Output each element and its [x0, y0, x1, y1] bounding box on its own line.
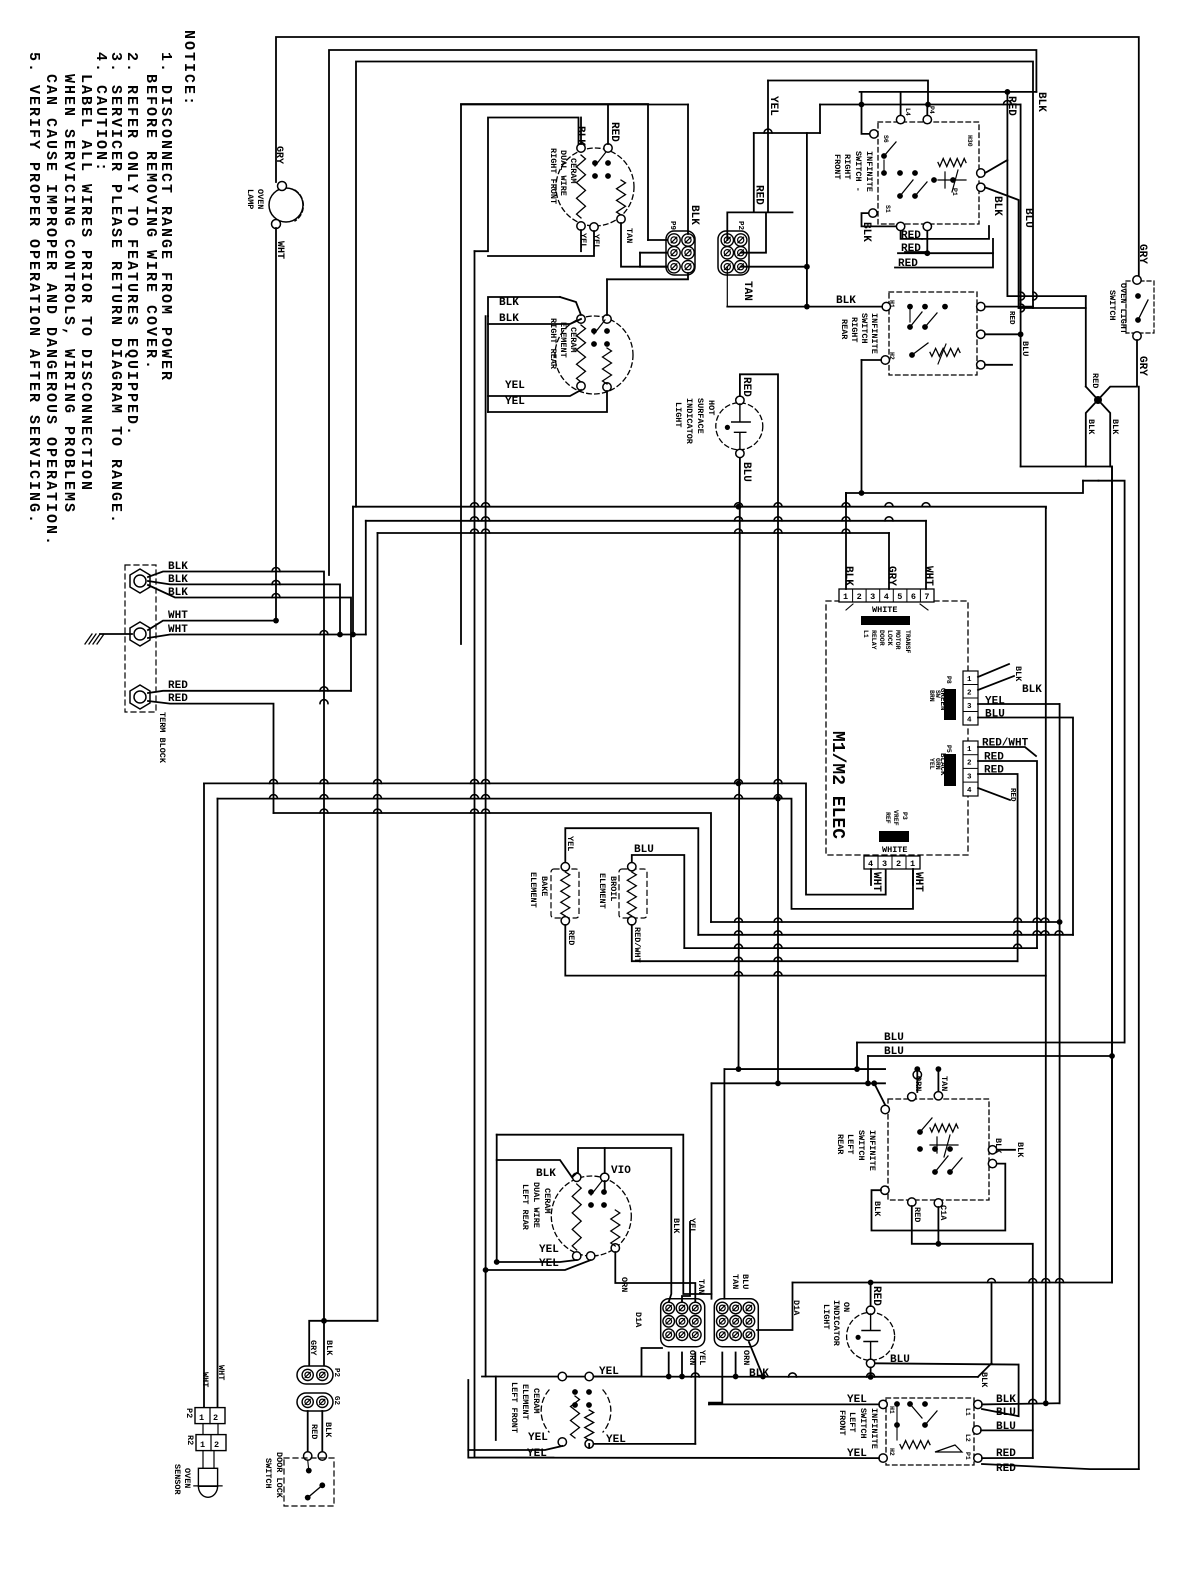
wire blu pair1: [857, 1042, 1125, 1044]
connector P9 (6 pin): [666, 231, 695, 275]
wire strip wire2: [888, 533, 890, 589]
wire green lead2: [978, 676, 1014, 690]
wire bus 1069: [724, 1068, 885, 1070]
svg-text:H2: H2: [888, 352, 895, 360]
terminal block: [125, 565, 156, 712]
connector D1A left (9 pin): [661, 1299, 705, 1347]
wire row 133: [754, 132, 820, 134]
svg-text:3: 3: [967, 773, 972, 781]
wire top right hor2: [1021, 467, 1112, 1283]
svg-text:4: 4: [868, 859, 873, 869]
wire D1B wire down: [709, 1353, 722, 1405]
connector black: [944, 754, 956, 786]
svg-text:BLK: BLK: [671, 1218, 681, 1234]
wire HSI bot wire: [739, 458, 740, 1069]
oven sensor bulb: [198, 1468, 217, 1486]
wire OLS cross feed: [1085, 296, 1087, 387]
svg-text:H2: H2: [888, 1448, 895, 1456]
wire LR feed1: [739, 1068, 886, 1070]
wire RF sw top1: [900, 92, 902, 115]
wire RR sw H2 v: [861, 360, 863, 493]
wire bus A: [846, 481, 1083, 493]
svg-text:M1/M2 ELEC: M1/M2 ELEC: [827, 731, 847, 839]
wire LR orn: [916, 1069, 918, 1092]
wire blk riser 991: [991, 1283, 993, 1364]
svg-text:YEL: YEL: [565, 836, 575, 851]
wire sensor wht1: [203, 1407, 205, 1409]
wire LR yel vert: [682, 1222, 690, 1302]
svg-text:BLU: BLU: [740, 462, 752, 482]
wire P9 top: [687, 105, 689, 235]
wire P2 top wire: [727, 212, 792, 240]
svg-text:RED: RED: [168, 680, 188, 692]
wire box RF inner: [475, 118, 579, 252]
svg-text:TAN: TAN: [624, 228, 634, 243]
svg-text:ELEMENT: ELEMENT: [597, 873, 607, 909]
svg-text:D1A: D1A: [633, 1312, 643, 1328]
svg-text:2. REFER ONLY TO FEATURES EQUI: 2. REFER ONLY TO FEATURES EQUIPPED.: [123, 52, 140, 437]
wire RR yel1: [488, 390, 581, 396]
wire RR right3: [985, 364, 1012, 366]
svg-text:RIGHT FRONT: RIGHT FRONT: [548, 148, 558, 204]
svg-text:1: 1: [967, 746, 972, 754]
wire D1B blk: [749, 1342, 763, 1377]
svg-text:4: 4: [967, 717, 972, 725]
svg-text:REAR: REAR: [839, 319, 849, 340]
svg-text:BROIL: BROIL: [608, 876, 618, 902]
wire TB blk2: [148, 581, 340, 635]
svg-text:GRN: GRN: [934, 758, 941, 770]
wire RR right2: [985, 333, 1021, 335]
svg-text:YEL: YEL: [539, 1258, 559, 1270]
wire RF right2: [985, 187, 1019, 308]
ceramic element dual wire right front: [556, 148, 634, 226]
transformer bar top: [861, 616, 910, 625]
svg-text:P8: P8: [945, 676, 952, 684]
svg-text:L1: L1: [862, 630, 869, 638]
svg-text:YEL: YEL: [505, 396, 525, 408]
svg-text:YEL: YEL: [539, 1244, 559, 1256]
wire D1A wire down1: [668, 1353, 670, 1377]
svg-text:REF: REF: [884, 812, 891, 824]
wire LR bot1: [912, 1206, 1033, 1458]
infinite switch left rear box: [888, 1099, 989, 1200]
svg-text:VREF: VREF: [892, 810, 899, 826]
svg-text:WHT: WHT: [168, 610, 188, 622]
connector strip P-7 top: [839, 589, 934, 602]
svg-text:WHT: WHT: [168, 624, 188, 636]
wire RR sw feed: [727, 306, 882, 308]
svg-text:INDICATOR: INDICATOR: [831, 1300, 841, 1347]
svg-text:FRONT: FRONT: [832, 154, 842, 180]
svg-text:SWITCH: SWITCH: [1107, 290, 1117, 321]
svg-text:RED: RED: [870, 1286, 882, 1306]
wire bake top wire: [565, 828, 698, 935]
svg-text:3: 3: [882, 859, 887, 869]
svg-text:BLU: BLU: [985, 709, 1005, 721]
wire RF sw feed: [461, 104, 688, 106]
wire blu pair2: [868, 1055, 1112, 1057]
wire RF sw top wire: [860, 91, 1037, 93]
svg-text:BLK: BLK: [1086, 419, 1096, 435]
wire LR left diag: [874, 1083, 885, 1105]
svg-text:BLK: BLK: [499, 297, 519, 309]
svg-text:OVEN: OVEN: [182, 1468, 192, 1488]
hot surface indicator light: [716, 403, 763, 450]
wire green blu: [978, 718, 1073, 935]
wire bus C: [366, 520, 926, 522]
svg-text:D1A: D1A: [791, 1300, 801, 1316]
wire TB wht2: [148, 635, 366, 639]
wire green lead1: [978, 664, 1009, 677]
svg-text:TERM BLOCK: TERM BLOCK: [157, 712, 167, 764]
wire ground wire: [100, 633, 132, 635]
wire ONI bot: [870, 1368, 872, 1377]
svg-text:SURFACE: SURFACE: [695, 398, 705, 434]
svg-text:RED/WHT: RED/WHT: [982, 738, 1029, 750]
svg-text:TAN: TAN: [696, 1279, 706, 1294]
broil element: [619, 869, 647, 918]
wire HSI top wire: [740, 374, 778, 798]
svg-text:BLK: BLK: [842, 566, 854, 586]
wire bus 1377: [482, 1376, 978, 1378]
svg-text:WHT: WHT: [912, 872, 924, 892]
wire vert 724: [723, 1069, 725, 1299]
svg-text:RED: RED: [912, 1207, 922, 1222]
svg-text:INFINITE: INFINITE: [869, 313, 879, 354]
svg-text:YEL: YEL: [928, 758, 935, 770]
wire long vert 486: [485, 316, 487, 1376]
svg-text:NOTICE:: NOTICE:: [180, 30, 197, 107]
svg-text:CERAM: CERAM: [568, 158, 578, 184]
svg-text:P2: P2: [736, 221, 744, 231]
svg-text:P5: P5: [945, 745, 952, 753]
wire blu drop2: [867, 1056, 869, 1083]
svg-text:H1: H1: [888, 300, 895, 308]
svg-text:1: 1: [199, 1413, 204, 1423]
wire vert 806 up: [806, 133, 808, 267]
svg-text:BLK: BLK: [993, 1138, 1003, 1154]
wire DL blk2: [321, 1411, 323, 1452]
wire P2 tan wire: [741, 267, 807, 307]
wire lamp WHT down: [275, 228, 277, 621]
svg-text:TAN: TAN: [730, 1274, 740, 1289]
svg-text:RED: RED: [1008, 788, 1016, 802]
connector P2 (6 pin): [718, 231, 749, 275]
svg-text:SWITCH: SWITCH: [858, 1408, 868, 1439]
svg-text:WHT: WHT: [216, 1365, 226, 1380]
svg-text:RED: RED: [168, 693, 188, 705]
wire RR sw H2: [862, 359, 882, 361]
svg-text:RED: RED: [566, 930, 576, 945]
svg-text:BLU: BLU: [884, 1046, 904, 1058]
wire TB red2: [148, 701, 274, 813]
wire strip wire1: [845, 493, 847, 589]
wire bus 922: [711, 921, 1060, 923]
svg-text:RED: RED: [984, 752, 1004, 764]
wire bus C corner2: [365, 521, 367, 635]
wire black red1: [978, 761, 1037, 948]
svg-text:P2: P2: [184, 1408, 194, 1418]
svg-text:3: 3: [967, 703, 972, 711]
wire bake bot wire: [565, 925, 1046, 976]
wire LF top wire: [594, 1376, 642, 1378]
svg-text:P9: P9: [668, 221, 676, 231]
svg-text:P2: P2: [332, 1368, 340, 1378]
wire row 308: [1019, 307, 1086, 309]
svg-text:MOTOR: MOTOR: [894, 630, 901, 650]
svg-text:5. VERIFY PROPER OPERATION AFT: 5. VERIFY PROPER OPERATION AFTER SERVICI…: [25, 52, 42, 525]
svg-text:WHT: WHT: [200, 1372, 210, 1387]
wire LR blk wire: [497, 1160, 577, 1177]
wire box LF: [468, 1380, 553, 1458]
connector white bottom: [879, 831, 909, 842]
svg-text:RED: RED: [740, 377, 752, 397]
svg-text:INFINITE: INFINITE: [864, 151, 874, 192]
svg-text:DUAL WIRE: DUAL WIRE: [531, 1182, 541, 1228]
svg-text:BLK: BLK: [1013, 666, 1023, 682]
svg-text:R2: R2: [185, 1435, 195, 1445]
svg-text:2: 2: [214, 1440, 219, 1450]
wire TB red1: [148, 691, 351, 693]
wire LF bot wire2: [588, 1444, 590, 1448]
oven light switch: [1126, 281, 1154, 333]
svg-text:RIGHT: RIGHT: [849, 317, 859, 343]
wire LR right1: [997, 1149, 1015, 1151]
wire red 753: [753, 133, 755, 212]
wire P2 tan down: [726, 267, 728, 307]
svg-text:SWITCH -: SWITCH -: [853, 151, 863, 192]
wire L2 top: [356, 62, 1033, 507]
svg-text:ORN: ORN: [741, 1350, 751, 1365]
svg-text:BLK: BLK: [168, 574, 188, 586]
wire LR yel1 wire: [497, 1260, 577, 1262]
wire bus A2: [845, 493, 847, 507]
svg-text:LABEL ALL WIRES PRIOR TO DISCO: LABEL ALL WIRES PRIOR TO DISCONNECTION: [77, 74, 94, 492]
wire LF red out: [982, 1457, 1033, 1459]
svg-text:GRY: GRY: [885, 566, 897, 586]
wire vert 1045: [1045, 508, 1047, 1404]
wire LF top riser: [642, 1348, 663, 1377]
svg-text:INFINITE: INFINITE: [867, 1130, 877, 1171]
svg-text:SWITCH: SWITCH: [859, 313, 869, 344]
wire LR tan wire: [615, 1252, 695, 1302]
svg-text:1: 1: [967, 676, 972, 684]
svg-text:SENSOR: SENSOR: [172, 1464, 182, 1496]
svg-text:GRY: GRY: [1136, 244, 1148, 264]
wire RF blk top: [580, 118, 582, 145]
svg-text:BLU: BLU: [884, 1032, 904, 1044]
wire LF blk out: [982, 1403, 1058, 1404]
svg-text:P3: P3: [901, 812, 908, 820]
svg-text:BLK: BLK: [168, 561, 188, 573]
wire RF bot1: [901, 231, 922, 239]
infinite switch right front box: [878, 122, 979, 224]
svg-text:2: 2: [213, 1413, 218, 1423]
wire black lead4: [978, 788, 1010, 800]
wire RF sw top2: [926, 105, 928, 116]
svg-text:LEFT REAR: LEFT REAR: [520, 1184, 530, 1231]
wire OLS bottom: [1086, 340, 1137, 467]
bake element: [551, 869, 579, 918]
svg-text:BLK: BLK: [991, 196, 1003, 216]
svg-text:TAN: TAN: [939, 1076, 949, 1091]
svg-text:6: 6: [911, 592, 916, 602]
wire N top: [329, 50, 1036, 575]
svg-text:RED: RED: [1007, 311, 1015, 325]
wire bus D: [378, 532, 890, 534]
svg-text:L1: L1: [964, 1408, 971, 1416]
wire box RR b: [487, 316, 489, 412]
oven lamp: [269, 188, 303, 222]
svg-text:LEFT: LEFT: [845, 1134, 855, 1154]
svg-text:RED: RED: [1090, 373, 1100, 388]
svg-text:TRANSF: TRANSF: [904, 630, 911, 654]
svg-text:S1: S1: [884, 205, 891, 213]
svg-text:INDICATOR: INDICATOR: [684, 398, 694, 445]
wire RF bot red2: [905, 251, 925, 253]
wire ONI top: [870, 1283, 872, 1307]
svg-text:CERAM: CERAM: [542, 1188, 552, 1214]
svg-text:YEL: YEL: [985, 696, 1005, 708]
wire strip wire3: [925, 521, 927, 589]
wire LR left2: [872, 1164, 1006, 1231]
wire P2 mid wire: [741, 212, 766, 252]
svg-text:VIO: VIO: [611, 1165, 631, 1177]
svg-text:H30: H30: [966, 135, 973, 147]
svg-text:2: 2: [857, 592, 862, 602]
svg-text:OVEN: OVEN: [255, 189, 265, 209]
svg-text:BLK: BLK: [688, 205, 700, 225]
wire TB wht1: [148, 621, 276, 630]
wire box LR: [497, 1135, 712, 1294]
wire LF bot wire3: [594, 1443, 695, 1445]
svg-text:DOOR LOCK: DOOR LOCK: [274, 1452, 284, 1499]
infinite switch left front box: [886, 1398, 974, 1465]
wire blu drop1: [856, 1043, 858, 1070]
wire top right v: [1020, 105, 1022, 467]
svg-text:BLK: BLK: [1110, 419, 1120, 435]
svg-text:RELAY: RELAY: [870, 630, 877, 650]
svg-text:L4: L4: [904, 108, 911, 116]
wire RF sw feed r: [820, 104, 1021, 106]
wire yel stub: [767, 81, 769, 212]
svg-text:YEL: YEL: [591, 234, 601, 249]
svg-text:BLK: BLK: [872, 1201, 882, 1217]
wire row 296: [1007, 295, 1085, 297]
svg-text:LAMP: LAMP: [245, 189, 255, 209]
wire TB blk3: [148, 585, 351, 691]
wire vert 777: [777, 799, 779, 1084]
wire LR tan: [937, 1069, 939, 1091]
wire bus B: [353, 507, 1046, 508]
wire RR right1: [985, 306, 1033, 308]
wire vert 820: [819, 105, 821, 134]
svg-text:CERAM: CERAM: [531, 1388, 541, 1414]
svg-text:RIGHT: RIGHT: [842, 154, 852, 180]
wire white w1: [870, 869, 872, 885]
wire LF yel bus: [709, 1403, 879, 1405]
svg-text:1: 1: [910, 859, 915, 869]
svg-text:LEFT FRONT: LEFT FRONT: [509, 1382, 519, 1433]
svg-text:BLK: BLK: [324, 1340, 334, 1356]
svg-text:WHT: WHT: [922, 566, 934, 586]
wire D1A wire down3: [694, 1353, 696, 1444]
wire bus 948: [684, 947, 1037, 949]
svg-text:SW: SW: [934, 690, 941, 698]
svg-text:LOCK: LOCK: [886, 630, 893, 646]
wire RR red wire: [606, 279, 608, 315]
wire box LR left: [496, 1135, 498, 1262]
wire bus 1282 v: [757, 1283, 793, 1331]
svg-text:4: 4: [884, 592, 889, 602]
wire ONI blu wire: [875, 1363, 1019, 1364]
svg-text:YEL: YEL: [528, 1432, 548, 1444]
svg-text:ON: ON: [841, 1302, 851, 1312]
svg-text:WHEN SERVICING CONTROLS, WIRIN: WHEN SERVICING CONTROLS, WIRING PROBLEMS: [60, 74, 77, 514]
svg-text:BLK: BLK: [323, 1422, 333, 1438]
wire bus F: [218, 799, 914, 909]
svg-text:TAN: TAN: [741, 281, 753, 301]
wire TB blk1: [148, 572, 324, 1321]
wire RF red row1: [922, 226, 989, 239]
svg-text:G2: G2: [332, 1396, 340, 1406]
wire box RR: [488, 297, 560, 316]
wire RF red up: [607, 105, 609, 145]
svg-text:P1: P1: [964, 1452, 971, 1460]
svg-text:BLK: BLK: [536, 1168, 556, 1180]
svg-text:LIGHT: LIGHT: [673, 402, 683, 428]
connector D1B right (9 pin): [714, 1299, 758, 1347]
wire LR bot2: [937, 1207, 939, 1244]
wire bus 935: [698, 934, 1073, 936]
svg-text:1: 1: [200, 1440, 205, 1450]
on indicator light: [847, 1312, 895, 1360]
infinite switch right rear box: [889, 292, 977, 375]
wire P9 bottom: [607, 273, 688, 279]
svg-text:YEL: YEL: [687, 1218, 697, 1233]
wire bus G: [274, 813, 712, 922]
svg-text:ELEMENT: ELEMENT: [520, 1384, 530, 1420]
wire P9 left2: [639, 253, 641, 267]
wire LR vio down: [604, 1181, 606, 1190]
wire vert 711: [711, 1083, 713, 1298]
svg-text:CERAM: CERAM: [568, 327, 578, 353]
wire RF sw feed v: [861, 92, 863, 105]
wire top right hor: [1099, 481, 1125, 1043]
wire LR vio wire: [604, 1148, 606, 1173]
wire L1 top: [276, 37, 1139, 276]
wire RF left2: [862, 213, 897, 226]
wire bus D corner: [377, 533, 379, 1321]
svg-text:WHITE: WHITE: [882, 845, 908, 855]
svg-text:BLK: BLK: [168, 587, 188, 599]
svg-text:DOOR: DOOR: [878, 630, 885, 646]
wire LF bot wire1: [468, 1446, 562, 1450]
wire bus 1083: [712, 1082, 886, 1084]
svg-text:BRN: BRN: [928, 690, 935, 702]
wire RF right1: [985, 160, 1007, 173]
wire RR blk2: [488, 319, 581, 324]
wire D1B wire down2: [735, 1353, 737, 1377]
wire OLS cross: [1086, 387, 1110, 467]
svg-text:RED: RED: [901, 230, 921, 242]
wire DL red: [307, 1411, 309, 1452]
wire box LR inner: [578, 1148, 671, 1302]
svg-text:REAR: REAR: [835, 1134, 845, 1155]
wire LF red2: [982, 1464, 1139, 1469]
wire box LF2: [495, 1377, 497, 1441]
